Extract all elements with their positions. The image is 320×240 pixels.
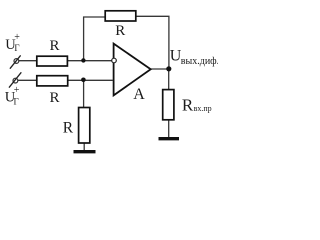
svg-text:вых.диф.: вых.диф. (181, 56, 218, 67)
svg-text:R: R (63, 119, 74, 136)
svg-text:+: + (14, 32, 20, 43)
svg-text:R: R (182, 95, 194, 114)
svg-text:R: R (115, 23, 125, 39)
svg-text:A: A (133, 86, 145, 103)
svg-text:вх.пр: вх.пр (194, 104, 212, 113)
svg-text:R: R (50, 38, 60, 54)
svg-text:R: R (50, 90, 60, 106)
svg-text:Г: Г (14, 96, 19, 106)
svg-text:+: + (14, 85, 20, 96)
svg-text:Г: Г (14, 43, 19, 53)
